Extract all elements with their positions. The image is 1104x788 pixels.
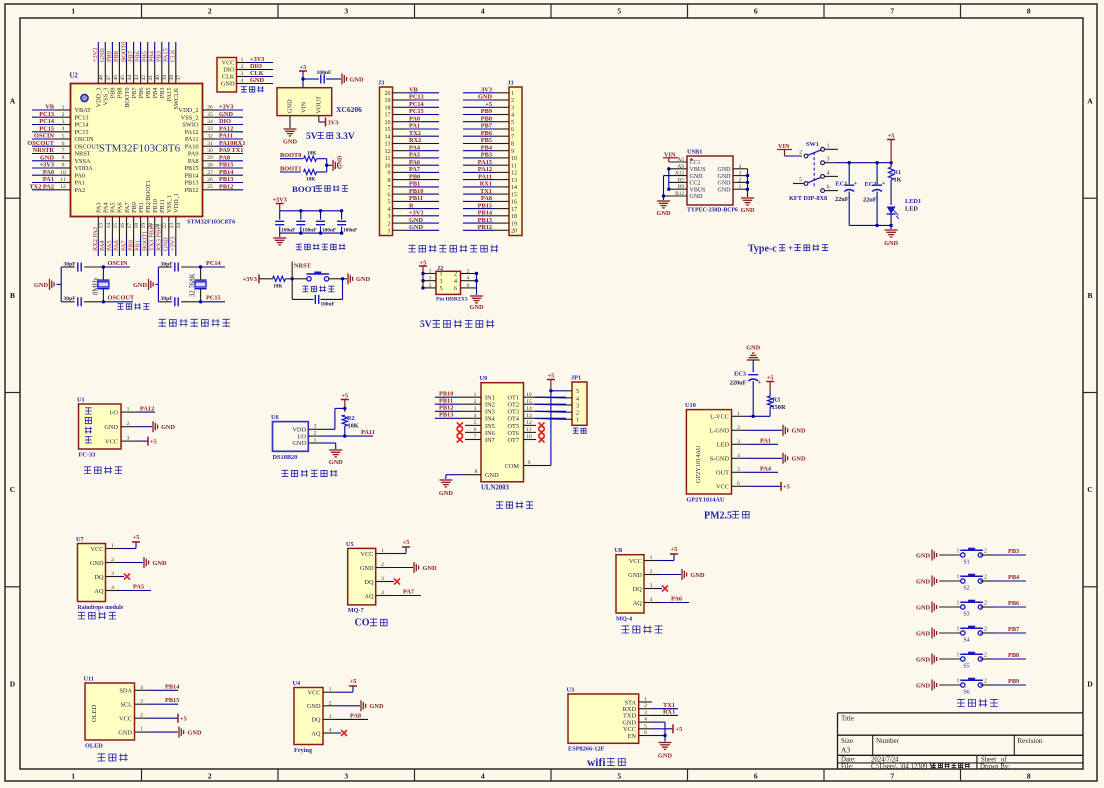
svg-text:+5: +5: [350, 678, 357, 685]
svg-text:2: 2: [140, 713, 143, 719]
svg-text:1: 1: [957, 601, 960, 607]
power +5 above XC6206: [299, 70, 307, 72]
svg-text:3: 3: [381, 576, 384, 582]
svg-text:PA7: PA7: [403, 589, 414, 596]
svg-text:PB9: PB9: [1008, 678, 1019, 685]
U2 right pin 27 PB14 net PB14: [203, 174, 218, 176]
svg-text:PA11: PA11: [219, 133, 233, 140]
svg-text:SWIO: SWIO: [182, 122, 199, 129]
svg-text:40: 40: [155, 75, 161, 81]
svg-text:1: 1: [644, 697, 647, 703]
svg-text:AQ: AQ: [94, 588, 104, 595]
module U6 DS18B20: [273, 422, 309, 452]
svg-text:2: 2: [644, 703, 647, 709]
svg-text:18: 18: [511, 214, 517, 220]
svg-text:B5: B5: [678, 177, 685, 183]
svg-text:Revision: Revision: [1018, 737, 1043, 745]
svg-text:Frying: Frying: [294, 747, 313, 754]
svg-text:PA3: PA3: [96, 202, 103, 213]
svg-text:2: 2: [984, 653, 987, 659]
svg-text:+3V3: +3V3: [250, 56, 264, 63]
svg-text:D: D: [10, 679, 16, 688]
U2 bottom pin 17 PA7 net PA7: [126, 217, 128, 239]
svg-text:PB14: PB14: [185, 172, 200, 179]
svg-text:PB7: PB7: [127, 51, 134, 62]
svg-text:10K: 10K: [307, 151, 317, 157]
svg-text:SW1: SW1: [806, 141, 819, 148]
svg-text:CO: CO: [355, 618, 370, 629]
svg-text:PA8: PA8: [350, 712, 361, 719]
svg-text:PA10: PA10: [185, 143, 199, 150]
svg-text:100nF: 100nF: [343, 228, 357, 234]
svg-text:PA6: PA6: [117, 202, 124, 213]
svg-text:+5: +5: [403, 539, 410, 546]
svg-text:PB9: PB9: [481, 108, 492, 115]
svg-text:4: 4: [381, 590, 384, 596]
svg-text:VDD_2: VDD_2: [179, 107, 199, 114]
svg-text:PA15: PA15: [166, 88, 173, 102]
svg-text:2: 2: [62, 112, 65, 118]
svg-text:2: 2: [576, 411, 579, 417]
svg-text:B: B: [10, 291, 15, 300]
svg-text:2: 2: [388, 221, 391, 227]
svg-text:RX2: RX2: [409, 137, 421, 144]
svg-text:+3V3: +3V3: [219, 104, 233, 111]
svg-text:46: 46: [113, 75, 119, 81]
U10 pin2 GND: [746, 429, 782, 431]
svg-text:2: 2: [984, 627, 987, 633]
svg-text:PB3: PB3: [481, 152, 492, 159]
svg-text:+3V3: +3V3: [170, 237, 177, 251]
svg-text:PB5: PB5: [142, 51, 149, 62]
svg-text:PB8: PB8: [481, 115, 492, 122]
svg-text:5: 5: [429, 283, 432, 289]
svg-text:2: 2: [511, 98, 514, 104]
U3 pin6 EN and ground: [652, 735, 665, 737]
svg-text:OSCOUT: OSCOUT: [108, 295, 135, 302]
svg-text:A5: A5: [678, 157, 685, 163]
svg-text:Pin HDR2X3: Pin HDR2X3: [436, 297, 468, 303]
U2 left pin 12 PA2 net TX2 PA2: [56, 189, 71, 191]
svg-text:GND: GND: [478, 94, 492, 101]
svg-text:J1: J1: [508, 80, 514, 87]
svg-text:19: 19: [385, 98, 391, 104]
svg-text:100nF: 100nF: [321, 302, 335, 308]
U2 bottom pin 24 VDD_1 net +3V3: [175, 217, 177, 239]
U5 pin3 no connect: [390, 581, 394, 583]
svg-text:I/O: I/O: [110, 409, 119, 416]
svg-text:L-GND: L-GND: [709, 428, 729, 435]
svg-text:7: 7: [62, 148, 65, 154]
U8 pin2 GND: [658, 574, 681, 576]
svg-text:GND: GND: [163, 237, 170, 251]
svg-text:IN6: IN6: [485, 430, 495, 437]
U2 left pin 7 NRST net NRSTR: [56, 153, 71, 155]
svg-text:S3: S3: [963, 612, 969, 618]
svg-text:GND: GND: [746, 345, 760, 352]
svg-text:1: 1: [381, 548, 384, 554]
svg-text:PB1: PB1: [409, 181, 420, 188]
svg-text:PA12: PA12: [219, 125, 233, 132]
svg-text:AQ: AQ: [311, 730, 321, 737]
button S2 net PB4: [958, 580, 962, 582]
svg-text:GND: GND: [287, 99, 294, 113]
U8 pin1 +5: [658, 560, 674, 562]
svg-text:S1: S1: [963, 560, 969, 566]
svg-text:PA12: PA12: [140, 405, 154, 412]
svg-text:PB14: PB14: [165, 683, 180, 690]
svg-text:GND: GND: [99, 48, 106, 62]
svg-text:PA8: PA8: [481, 195, 492, 202]
svg-text:6: 6: [467, 283, 470, 289]
svg-text:23: 23: [169, 223, 175, 229]
regulator U XC6206: [277, 88, 332, 116]
power +5 pm2.5: [766, 381, 774, 383]
crystal Y1 8MHz: [102, 267, 104, 280]
svg-text:PA7: PA7: [124, 202, 131, 213]
svg-text:41: 41: [148, 75, 154, 81]
svg-text:10K: 10K: [348, 423, 359, 430]
svg-text:VBUS: VBUS: [690, 187, 706, 193]
U2 top pin 40 PB4 net PB4: [154, 63, 156, 84]
svg-text:VSSA: VSSA: [75, 158, 92, 165]
svg-text:2: 2: [650, 569, 653, 575]
U5 pin2 GND: [390, 567, 413, 569]
svg-text:TX1: TX1: [480, 188, 492, 195]
svg-text:GP2Y1014AU: GP2Y1014AU: [695, 445, 702, 483]
svg-text:150R: 150R: [772, 404, 786, 411]
wire GND bus right: [747, 169, 749, 197]
svg-text:GND: GND: [916, 552, 930, 559]
svg-text:DQ: DQ: [364, 579, 374, 586]
ground GND type-c: [885, 229, 898, 231]
capacitor C 30pF top right: [174, 263, 176, 272]
svg-text:4: 4: [644, 717, 647, 723]
svg-text:PC14: PC14: [75, 122, 90, 129]
U10 pin4 GND: [746, 457, 782, 459]
svg-text:GND: GND: [118, 729, 132, 736]
ground GND right of cap: [341, 74, 343, 85]
svg-text:3: 3: [344, 772, 348, 781]
U10 pin6 +5: [746, 485, 781, 487]
svg-text:5: 5: [737, 467, 740, 473]
svg-text:5: 5: [62, 134, 65, 140]
svg-text:2: 2: [111, 557, 114, 563]
U7 pin1 +5: [120, 548, 136, 550]
svg-text:PA4: PA4: [103, 202, 110, 213]
button S3 net PB6: [958, 606, 962, 608]
svg-text:GND: GND: [691, 572, 705, 579]
svg-text:LED1: LED1: [905, 198, 921, 205]
svg-text:1: 1: [827, 143, 830, 149]
U3 pin3 net RX1: [652, 714, 678, 716]
U2 left pin 9 VDDA net +3V3: [56, 167, 71, 169]
svg-text:2024/7/24: 2024/7/24: [871, 756, 899, 763]
svg-text:32: 32: [207, 134, 213, 140]
button S6 net PB9: [958, 684, 962, 686]
svg-text:ULN2003: ULN2003: [481, 485, 510, 492]
U6 pin 2 net PA11: [308, 435, 322, 437]
U2 top pin 37 SWCLK net CLK: [175, 63, 177, 84]
svg-text:11: 11: [60, 177, 66, 183]
svg-text:PA5: PA5: [409, 152, 420, 159]
svg-text:2: 2: [799, 150, 802, 156]
capacitor C 30pF bottom right: [174, 297, 176, 306]
svg-text:U4: U4: [293, 680, 302, 687]
svg-text:wifi: wifi: [587, 757, 606, 769]
svg-text:Date:: Date:: [841, 756, 856, 763]
U5 pin1 +5: [390, 553, 406, 555]
svg-text:6: 6: [454, 286, 457, 292]
svg-text:DIO: DIO: [250, 63, 262, 70]
svg-text:IN3: IN3: [485, 409, 495, 416]
svg-text:PB0: PB0: [409, 173, 420, 180]
svg-text:NRST: NRST: [294, 263, 312, 270]
wire filter bottom bus: [280, 232, 342, 234]
svg-text:1: 1: [957, 575, 960, 581]
svg-text:KFT DIP-8X8: KFT DIP-8X8: [789, 195, 827, 202]
svg-text:1: 1: [127, 407, 130, 413]
U7 pin2 GND: [120, 562, 143, 564]
svg-text:PB11: PB11: [159, 199, 166, 213]
svg-text:S4: S4: [963, 638, 969, 644]
svg-text:15: 15: [511, 192, 517, 198]
svg-text:29: 29: [207, 155, 213, 161]
svg-text:5: 5: [576, 389, 579, 395]
svg-text:13: 13: [99, 223, 105, 229]
svg-text:A3: A3: [841, 746, 850, 755]
svg-text:30pF: 30pF: [64, 296, 77, 302]
svg-text:25: 25: [207, 184, 213, 190]
svg-text:20: 20: [385, 91, 391, 97]
label dianji: [573, 428, 579, 434]
button S5 net PB8: [958, 658, 962, 660]
USB1 left pin B12 GND: [664, 195, 688, 197]
U2 top pin 47 VSS_3 net GND: [104, 63, 106, 84]
USB1 left pin A12 GND: [664, 175, 688, 177]
svg-text:PB3: PB3: [156, 51, 163, 62]
svg-text:AQ: AQ: [364, 593, 374, 600]
svg-text:OT1: OT1: [507, 395, 519, 402]
svg-text:10K: 10K: [306, 177, 316, 183]
svg-text:S2: S2: [963, 586, 969, 592]
svg-text:OT4: OT4: [507, 416, 519, 423]
capacitor EC3 220uF: [748, 374, 758, 376]
svg-text:12: 12: [385, 149, 391, 155]
svg-text:1: 1: [71, 7, 75, 16]
svg-text:VSS_2: VSS_2: [181, 115, 199, 122]
svg-text:PA7: PA7: [120, 240, 127, 251]
svg-text:GND: GND: [470, 304, 484, 311]
svg-text:1: 1: [314, 437, 317, 443]
svg-text:GND: GND: [370, 703, 384, 710]
svg-text:2: 2: [208, 7, 212, 16]
svg-text:PA7: PA7: [409, 166, 420, 173]
svg-text:14: 14: [385, 134, 391, 140]
svg-text:5: 5: [799, 178, 802, 184]
svg-text:9: 9: [388, 171, 391, 177]
svg-text:GND: GND: [40, 154, 54, 161]
svg-text:7: 7: [511, 134, 514, 140]
svg-text:4: 4: [62, 126, 65, 132]
svg-text:PA5: PA5: [110, 202, 117, 213]
svg-text:DIO: DIO: [219, 118, 231, 125]
U1 pin 2 GND: [121, 426, 136, 428]
USB1 left pin A9 VBUS: [669, 168, 687, 170]
svg-text:PA9: PA9: [188, 151, 199, 158]
svg-text:+5: +5: [180, 716, 187, 723]
svg-text:Number: Number: [876, 737, 900, 745]
capacitor 100nF filter 3: [320, 211, 322, 220]
svg-text:IN4: IN4: [485, 416, 496, 423]
svg-text:12: 12: [60, 184, 66, 190]
svg-text:PA11: PA11: [361, 429, 375, 436]
U2 left pin 6 OSCOUT net OSCOUT: [56, 145, 71, 147]
svg-text:U11: U11: [84, 676, 95, 683]
svg-text:PA4: PA4: [409, 144, 421, 151]
label xiazaikou: [241, 86, 247, 92]
U3 pin2 net TX1: [652, 708, 678, 710]
svg-text:VCC: VCC: [119, 716, 132, 723]
svg-text:2: 2: [329, 700, 332, 706]
capacitor C 30pF top: [77, 263, 79, 272]
svg-text:13: 13: [385, 142, 391, 148]
svg-text:+5: +5: [767, 375, 774, 382]
module U7 Raindrops: [78, 544, 106, 602]
wires OT to JP1: [551, 390, 566, 392]
svg-text:18: 18: [134, 223, 140, 229]
label xianshiping: [98, 753, 106, 761]
svg-text:13: 13: [511, 178, 517, 184]
svg-text:3: 3: [329, 714, 332, 720]
U2 right pin 28 PB15 net PB15: [203, 167, 218, 169]
svg-text:220uF: 220uF: [730, 380, 747, 387]
svg-text:4: 4: [827, 170, 830, 176]
svg-text:File:: File:: [841, 763, 854, 770]
svg-text:3: 3: [739, 171, 742, 177]
svg-text:GND: GND: [133, 282, 147, 289]
svg-text:11: 11: [385, 156, 391, 162]
svg-text:COM: COM: [505, 463, 520, 470]
svg-text:GND: GND: [718, 187, 732, 193]
U2 bottom pin 13 PA3 net RX2 PA3: [97, 217, 99, 239]
module U1 FC-33 infrared: [79, 404, 122, 449]
svg-text:B9: B9: [678, 184, 685, 190]
svg-text:PB3: PB3: [159, 88, 166, 99]
svg-text:GND: GND: [360, 565, 374, 572]
svg-text:19: 19: [511, 221, 517, 227]
svg-text:FC-33: FC-33: [79, 452, 96, 459]
svg-text:PM2.5: PM2.5: [704, 511, 732, 522]
svg-text:1: 1: [957, 679, 960, 685]
svg-text:4: 4: [140, 685, 143, 691]
svg-text:3: 3: [511, 106, 514, 112]
svg-text:35: 35: [207, 112, 213, 118]
ground GND at J2: [470, 295, 483, 297]
svg-text:BOOT1: BOOT1: [142, 231, 149, 251]
svg-text:PB11: PB11: [439, 398, 453, 405]
svg-text:DQ: DQ: [311, 717, 321, 724]
svg-text:OSCIN: OSCIN: [34, 133, 54, 140]
svg-text:38: 38: [169, 75, 175, 81]
svg-text:VBUS: VBUS: [690, 167, 706, 173]
svg-text:8: 8: [1027, 7, 1031, 16]
svg-text:PB13: PB13: [439, 412, 453, 419]
svg-text:OLED: OLED: [91, 704, 98, 722]
svg-text:6: 6: [827, 185, 830, 191]
U8 pin3 no connect: [658, 588, 662, 590]
svg-text:STM32F103C8T6: STM32F103C8T6: [187, 219, 235, 226]
svg-text:U2: U2: [70, 73, 79, 80]
U7 pin4 net PA5: [120, 590, 151, 592]
svg-text:1: 1: [957, 627, 960, 633]
svg-text:PA2: PA2: [75, 187, 86, 194]
svg-text:NRST: NRST: [75, 151, 91, 158]
svg-text:GND: GND: [916, 604, 930, 611]
svg-text:3: 3: [737, 439, 740, 445]
svg-text:OUT: OUT: [716, 470, 729, 477]
LED LED1: [887, 207, 896, 215]
svg-text:32.768K: 32.768K: [190, 273, 197, 297]
svg-text:VB: VB: [409, 87, 419, 94]
svg-text:100nF: 100nF: [317, 70, 333, 76]
svg-text:16: 16: [385, 120, 391, 126]
U2 right pin 30 PA9 net PA9 TX1: [203, 153, 218, 155]
svg-text:VB: VB: [45, 104, 55, 111]
U2 bottom pin 15 PA5 net PA5: [111, 217, 113, 239]
svg-text:BOOT0: BOOT0: [120, 42, 127, 62]
svg-text:1: 1: [429, 269, 432, 275]
svg-text:PB9: PB9: [110, 88, 117, 99]
svg-text:PB1: PB1: [138, 202, 145, 213]
svg-text:RX3 PB11: RX3 PB11: [156, 224, 163, 251]
resistor R2 10K: [342, 415, 347, 426]
U10 pin1 wire: [746, 415, 770, 417]
svg-text:PB12: PB12: [185, 187, 199, 194]
svg-text:VCC: VCC: [105, 438, 118, 445]
svg-text:+: +: [758, 380, 762, 386]
svg-text:OLED: OLED: [85, 743, 103, 750]
svg-text:PA11: PA11: [185, 136, 199, 143]
svg-text:4: 4: [511, 113, 514, 119]
svg-text:PA8: PA8: [188, 158, 199, 165]
connector J1 header 20pin: [509, 87, 522, 236]
U8 pin4 net PA6: [658, 602, 689, 604]
svg-text:3: 3: [140, 699, 143, 705]
svg-text:GND: GND: [350, 76, 364, 83]
svg-text:PA11: PA11: [478, 173, 492, 180]
U11 VCC +5: [149, 717, 178, 719]
svg-text:2: 2: [454, 272, 457, 278]
svg-text:CLK: CLK: [222, 74, 235, 81]
U2 bottom pin 14 PA4 net PA4: [104, 217, 106, 239]
svg-text:PB12: PB12: [439, 405, 453, 412]
U5 pin4 net PA7: [390, 595, 421, 597]
svg-text:GND: GND: [283, 139, 297, 146]
svg-text:PA15: PA15: [163, 48, 170, 62]
svg-text:R3: R3: [773, 397, 781, 404]
svg-text:4: 4: [467, 276, 470, 282]
svg-text:3: 3: [127, 436, 130, 442]
wire GND bus left: [663, 176, 665, 200]
connector USB1 TYPEC-250D-BCP6: [687, 156, 733, 205]
USB1 left pin B9 VBUS: [669, 188, 687, 190]
svg-text:PC14: PC14: [39, 118, 55, 125]
U2 top pin 46 PB9 net PB9: [111, 63, 113, 84]
svg-text:VIN: VIN: [301, 101, 308, 113]
svg-text:TX3 PB10: TX3 PB10: [149, 224, 156, 251]
svg-text:C: C: [10, 485, 15, 494]
